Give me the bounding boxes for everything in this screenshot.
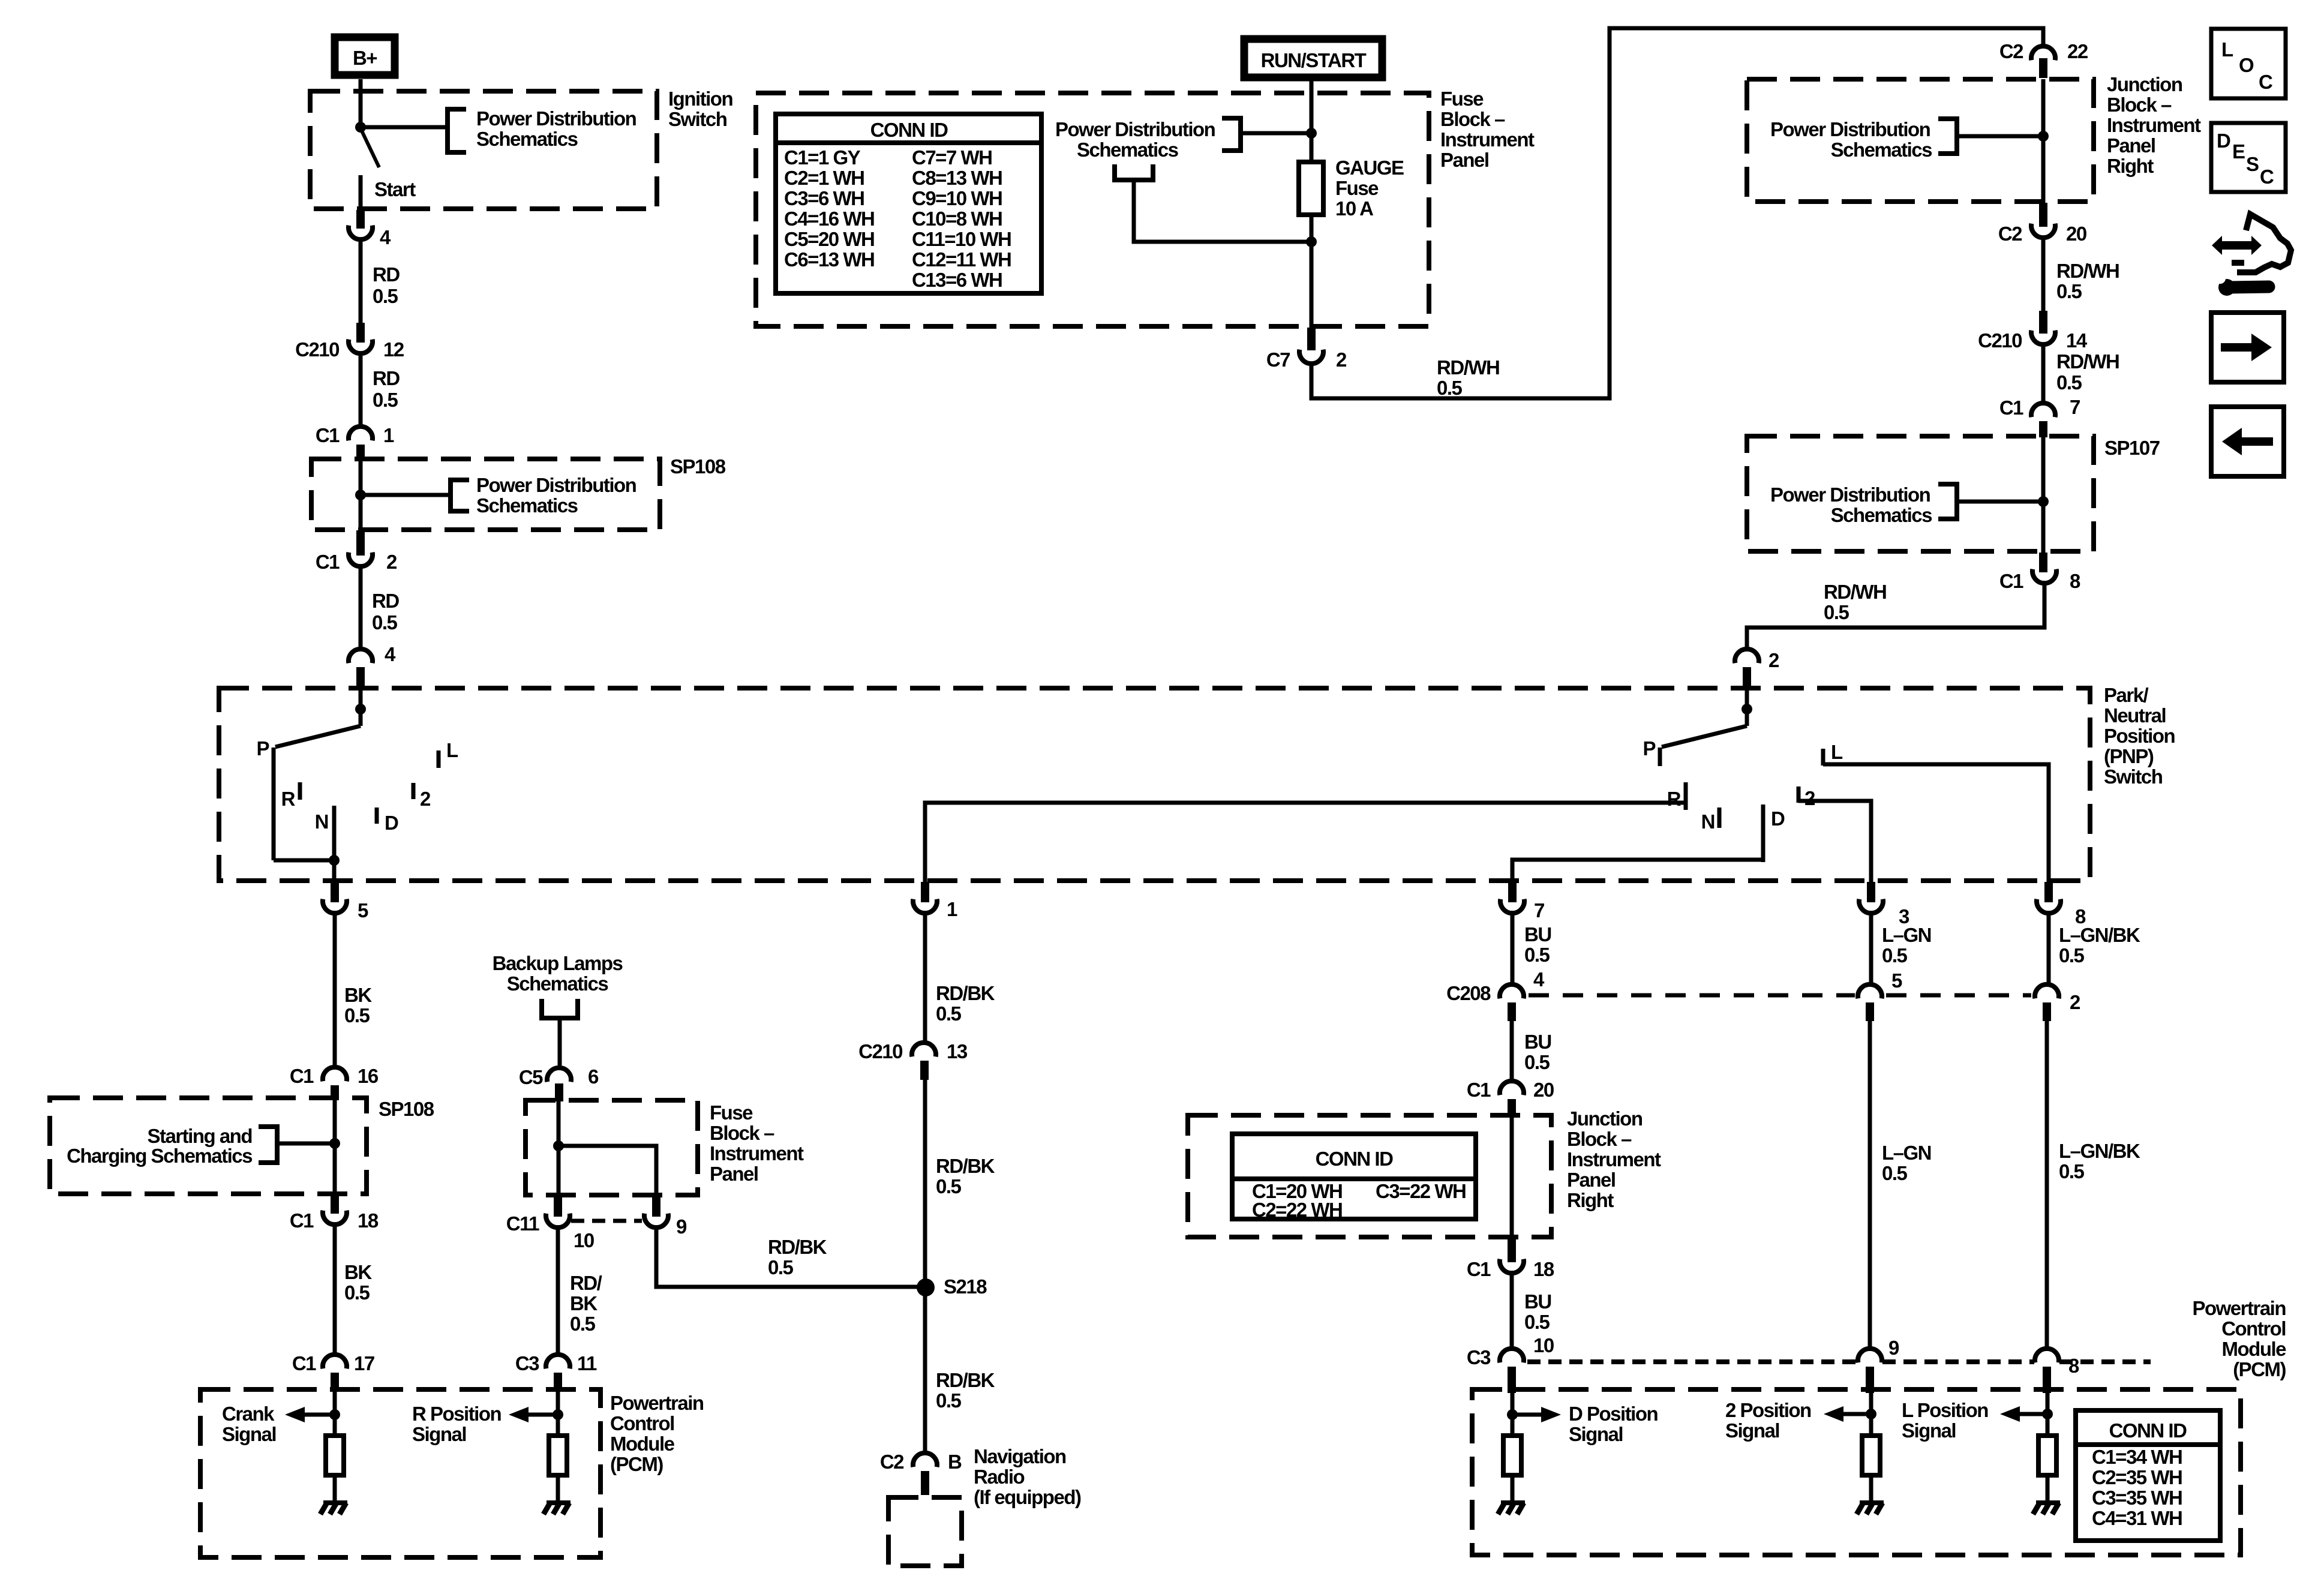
svg-text:Signal: Signal — [412, 1423, 466, 1445]
svg-text:L–GN: L–GN — [1882, 1142, 1931, 1164]
svg-text:BK: BK — [344, 984, 372, 1006]
svg-text:0.5: 0.5 — [936, 1389, 962, 1412]
svg-text:Signal: Signal — [1569, 1423, 1623, 1445]
wire SP108 lower to bracket — [277, 1142, 335, 1146]
svg-text:0.5: 0.5 — [2059, 1160, 2085, 1182]
connector C1 pin 16 stub — [331, 1085, 339, 1098]
node SP107 junction — [2038, 496, 2049, 507]
wire label BK 0.5 (a) — [344, 984, 372, 1026]
connector 2 PNP — [1735, 649, 1779, 671]
left contact P — [256, 737, 274, 860]
svg-text:2: 2 — [1768, 649, 1779, 671]
wire through junction block lower — [1510, 1116, 1514, 1241]
wire 8 to tie 2 — [2047, 914, 2051, 985]
ground crank — [320, 1500, 347, 1514]
svg-text:C1: C1 — [1467, 1258, 1491, 1280]
wire R resistor to ground — [556, 1475, 560, 1502]
connector C2 pin B stub — [921, 1471, 929, 1495]
power symbol B+ — [335, 37, 395, 75]
svg-text:C1=1 GY: C1=1 GY — [784, 146, 861, 169]
wire D resistor to ground — [1511, 1475, 1515, 1502]
label Ignition Switch — [668, 88, 732, 130]
svg-text:Block –: Block – — [2107, 94, 2172, 116]
label SP107 — [2104, 437, 2160, 459]
right contact 2 — [1798, 786, 1815, 809]
wire C3-10 into PCM — [1511, 1393, 1515, 1436]
svg-text:Power Distribution: Power Distribution — [476, 107, 636, 130]
wire lower bracket to fuse bottom — [1134, 180, 1309, 242]
wire 2 resistor to ground — [1869, 1475, 1873, 1502]
svg-text:BU: BU — [1524, 1290, 1551, 1313]
svg-text:2: 2 — [1804, 787, 1815, 809]
svg-text:C1: C1 — [316, 551, 340, 573]
connector C208 pin 4 — [1446, 982, 1524, 1004]
left contact L — [439, 739, 458, 768]
connector C1 pin 2 — [316, 551, 397, 573]
svg-text:0.5: 0.5 — [768, 1256, 794, 1278]
power symbol RUN/START — [1244, 39, 1382, 77]
resistor D position — [1503, 1436, 1521, 1475]
svg-text:C208: C208 — [1446, 982, 1491, 1004]
wire label RD/WH 0.5 (c) — [2056, 350, 2119, 394]
svg-text:L–GN/BK: L–GN/BK — [2059, 924, 2140, 946]
right contact P — [1643, 737, 1660, 766]
bracket power distribution (SP108) — [451, 480, 469, 511]
svg-text:8: 8 — [2068, 1355, 2079, 1377]
svg-text:0.5: 0.5 — [1524, 1311, 1550, 1333]
wire 9 into PCM — [1869, 1393, 1873, 1436]
svg-text:9: 9 — [676, 1215, 687, 1238]
svg-text:4: 4 — [1533, 968, 1545, 990]
label Crank Signal — [222, 1403, 276, 1445]
label L Position Signal — [1902, 1399, 1988, 1442]
svg-text:C3=22 WH: C3=22 WH — [1376, 1180, 1466, 1202]
connector 2 PNP stub — [1743, 667, 1751, 691]
svg-text:(PCM): (PCM) — [2233, 1358, 2286, 1380]
2 position arrow — [1824, 1406, 1871, 1422]
wire label BU 0.5 (b) — [1524, 1031, 1551, 1073]
svg-text:RD/WH: RD/WH — [2056, 260, 2119, 282]
svg-text:Panel: Panel — [2107, 134, 2155, 157]
resistor 2 position — [1862, 1436, 1880, 1475]
left contact 2 — [413, 783, 431, 810]
connector C7 pin 2 stub — [1307, 328, 1316, 350]
svg-text:C210: C210 — [1978, 329, 2022, 352]
svg-text:R: R — [1667, 788, 1682, 810]
svg-text:Charging Schematics: Charging Schematics — [67, 1145, 252, 1167]
svg-text:RD/WH: RD/WH — [1824, 581, 1886, 603]
wire label L-GN/BK 0.5 (b) — [2059, 1140, 2140, 1182]
connector 4 ignition stub — [356, 210, 365, 229]
fuse block box upper — [756, 93, 1429, 326]
R position arrow — [509, 1407, 558, 1422]
node junction block junction — [2038, 131, 2049, 142]
crank signal arrow — [285, 1407, 335, 1422]
fuse GAUGE 10A — [1299, 162, 1323, 215]
wire B+ down — [359, 79, 363, 129]
svg-text:CONN ID: CONN ID — [2109, 1419, 2187, 1442]
svg-text:RD/BK: RD/BK — [936, 1369, 995, 1391]
svg-text:Neutral: Neutral — [2104, 704, 2166, 727]
svg-text:E: E — [2232, 140, 2245, 163]
svg-text:Switch: Switch — [668, 108, 727, 130]
wire 9 to S218 — [656, 1229, 918, 1287]
wire label RD/BK 0.5 (horiz) — [768, 1236, 827, 1278]
label Park/Neutral Position (PNP) Switch — [2104, 684, 2175, 788]
label Fuse Block Instrument Panel upper — [1440, 88, 1535, 171]
svg-text:Module: Module — [2222, 1338, 2287, 1360]
node crank junction — [329, 1409, 340, 1420]
svg-text:Instrument: Instrument — [1567, 1148, 1661, 1170]
conn id table lower box — [1232, 1134, 1476, 1219]
connector C1 pin 20 stub — [1508, 1099, 1516, 1116]
svg-text:CONN ID: CONN ID — [870, 119, 948, 141]
wire L resistor to ground — [2046, 1475, 2050, 1502]
svg-text:R Position: R Position — [412, 1403, 502, 1425]
svg-text:Schematics: Schematics — [507, 972, 608, 995]
connector C2 pin 20 stub — [2039, 203, 2047, 227]
left switch arm — [275, 709, 361, 747]
connector C2 pin 20 — [1998, 223, 2086, 245]
label Powertrain Control Module (PCM) right — [2192, 1297, 2286, 1380]
label Backup Lamps Schematics — [493, 952, 623, 995]
label Powertrain Control Module (PCM) left — [610, 1392, 704, 1475]
wire label BU 0.5 (a) — [1524, 923, 1551, 966]
svg-text:C5: C5 — [519, 1066, 543, 1088]
node SP108 lower junction — [329, 1138, 340, 1149]
wire C5-6 through fuse block — [557, 1100, 561, 1196]
svg-text:Fuse: Fuse — [1335, 177, 1379, 199]
wire C210-14 to C1-7 — [2041, 346, 2046, 402]
label Junction Block Instrument Panel Right (top) — [2107, 73, 2201, 177]
svg-text:Block –: Block – — [1567, 1128, 1632, 1150]
svg-text:C11=10 WH: C11=10 WH — [912, 228, 1011, 250]
svg-text:SP108: SP108 — [379, 1098, 434, 1120]
svg-text:N: N — [1701, 810, 1715, 833]
svg-text:C210: C210 — [295, 338, 339, 361]
label Navigation Radio (If equipped) — [974, 1445, 1081, 1508]
svg-text:Powertrain: Powertrain — [610, 1392, 704, 1414]
svg-text:Schematics: Schematics — [1831, 139, 1932, 161]
wire label BK 0.5 (b) — [344, 1261, 372, 1304]
svg-text:16: 16 — [358, 1065, 379, 1087]
node SP108 junction — [355, 490, 366, 500]
connector C1 pin 2 stub — [356, 530, 365, 556]
wire SP107 to bracket — [1957, 500, 2043, 504]
svg-text:S218: S218 — [944, 1275, 987, 1298]
svg-text:Panel: Panel — [710, 1163, 758, 1185]
connector C3 pin 10 stub — [1508, 1367, 1516, 1393]
svg-text:10 A: 10 A — [1335, 197, 1373, 220]
svg-text:L: L — [446, 739, 458, 761]
right contact R — [1667, 782, 1686, 810]
wire through SP108 lower — [333, 1096, 337, 1197]
left contact N — [315, 806, 334, 860]
svg-text:C4=31 WH: C4=31 WH — [2092, 1507, 2182, 1529]
wire label RD/WH 0.5 (b) — [2056, 260, 2119, 302]
svg-text:22: 22 — [2067, 40, 2088, 62]
svg-text:Block –: Block – — [710, 1122, 774, 1144]
label pin 10 (C3) — [1533, 1334, 1554, 1356]
svg-text:C8=13 WH: C8=13 WH — [912, 167, 1002, 189]
label pin 4 (C208) — [1533, 968, 1545, 990]
svg-text:7: 7 — [2070, 396, 2080, 418]
connector 5 tie — [1858, 984, 1882, 998]
icon box DESC — [2211, 123, 2286, 192]
svg-text:SP107: SP107 — [2104, 437, 2160, 459]
label D Position Signal — [1569, 1403, 1658, 1445]
connector 8 PCM stub — [2043, 1367, 2051, 1393]
connector C5 pin 6 stub — [555, 1083, 563, 1101]
svg-text:Radio: Radio — [974, 1466, 1025, 1488]
node left switch pivot — [355, 704, 366, 715]
wire C3-11 into PCM — [556, 1391, 560, 1436]
svg-text:2: 2 — [1336, 349, 1347, 371]
wire C11-10 to C3-11 — [556, 1229, 560, 1355]
svg-text:P: P — [256, 737, 269, 760]
wire tie2 down to 8 — [2045, 1020, 2049, 1351]
svg-text:Block –: Block – — [1440, 108, 1505, 130]
svg-text:C3: C3 — [1467, 1346, 1491, 1368]
svg-text:C6=13 WH: C6=13 WH — [784, 248, 874, 271]
icon box arrow left — [2211, 407, 2284, 476]
svg-text:4: 4 — [380, 226, 391, 248]
label pin 5 (tie) — [1891, 969, 1902, 992]
wire S218 to C2-B — [923, 1293, 927, 1454]
label Junction Block Instrument Panel Right (bottom) — [1567, 1107, 1661, 1211]
splice box SP108 upper — [311, 459, 660, 530]
connector C5 pin 6 — [519, 1065, 599, 1088]
connector C1 pin 7 — [1999, 396, 2080, 419]
connector 2 tie — [2035, 984, 2080, 1013]
connector C1 pin 17 — [292, 1352, 374, 1374]
svg-text:C3=6 WH: C3=6 WH — [784, 187, 864, 209]
connector 8 PCM — [2035, 1349, 2079, 1377]
svg-text:Right: Right — [1567, 1189, 1614, 1211]
connector 1 stub — [921, 882, 929, 902]
wire C210-13 to S218 — [923, 1079, 927, 1284]
ground R position — [544, 1500, 571, 1514]
wire 2 contact to connector 3 — [1798, 801, 1871, 882]
svg-text:0.5: 0.5 — [1524, 944, 1550, 966]
wire D contact to connector 7 — [1512, 860, 1763, 882]
svg-text:Signal: Signal — [222, 1423, 276, 1445]
svg-text:Backup Lamps: Backup Lamps — [493, 952, 623, 974]
wire bracket to fuse wire — [1241, 131, 1311, 136]
svg-text:Control: Control — [610, 1412, 674, 1434]
node fuse block lower junction — [553, 1140, 564, 1151]
svg-text:C210: C210 — [858, 1040, 902, 1062]
dotted tie C3-9-8 — [1527, 1359, 2151, 1364]
svg-text:C1=34 WH: C1=34 WH — [2092, 1446, 2182, 1468]
svg-text:5: 5 — [358, 899, 368, 921]
svg-text:B: B — [948, 1451, 962, 1473]
PCM box right — [1472, 1389, 2241, 1555]
wire backup bracket down — [558, 1018, 562, 1065]
wire fuse bottom — [1310, 215, 1314, 244]
resistor L position — [2038, 1436, 2056, 1475]
svg-text:Signal: Signal — [1902, 1419, 1956, 1442]
junction block box lower — [1188, 1115, 1551, 1237]
svg-text:Signal: Signal — [1725, 1419, 1779, 1442]
svg-text:C2=1 WH: C2=1 WH — [784, 167, 864, 189]
connector C1 pin 18 right — [1467, 1258, 1554, 1280]
left contact R — [281, 782, 300, 810]
wire label RD 0.5 (b) — [373, 367, 400, 411]
svg-text:C2=22 WH: C2=22 WH — [1252, 1199, 1342, 1221]
svg-text:8: 8 — [2070, 570, 2080, 592]
svg-text:14: 14 — [2066, 329, 2088, 352]
svg-text:C4=16 WH: C4=16 WH — [784, 208, 874, 230]
node D position junction — [1507, 1409, 1518, 1420]
wire label RD/BK 0.5 (vert) — [570, 1272, 602, 1335]
conn id table upper column 1 — [784, 146, 874, 271]
fuse block box lower — [526, 1100, 698, 1195]
connector C1 pin 18 stub — [331, 1194, 339, 1214]
wire label RD/WH 0.5 (d) — [1824, 581, 1886, 623]
svg-text:C2: C2 — [1998, 223, 2022, 245]
connector 1 — [913, 898, 957, 920]
label SP108 lower — [379, 1098, 434, 1120]
connector C7 pin 2 — [1266, 349, 1347, 371]
svg-text:C12=11 WH: C12=11 WH — [912, 248, 1011, 271]
connector 3 — [1859, 899, 1909, 927]
connector C2 pin 22 — [1999, 40, 2088, 62]
right contact N — [1701, 807, 1719, 833]
svg-text:2: 2 — [2070, 991, 2080, 1013]
conn id table PCM box — [2076, 1410, 2220, 1541]
svg-text:Ignition: Ignition — [668, 88, 732, 110]
svg-text:C7=7 WH: C7=7 WH — [912, 146, 992, 169]
connector C1 pin 7 stub — [2039, 421, 2047, 437]
ignition switch arm — [361, 128, 379, 167]
svg-text:Position: Position — [2104, 725, 2175, 747]
svg-text:O: O — [2239, 54, 2254, 76]
svg-text:1: 1 — [383, 424, 394, 446]
right switch arm — [1662, 709, 1747, 747]
left contact D — [377, 807, 398, 834]
icon wrench with double arrow — [2212, 214, 2291, 296]
svg-text:0.5: 0.5 — [1824, 601, 1849, 623]
svg-text:Power Distribution: Power Distribution — [1770, 484, 1930, 506]
svg-text:Instrument: Instrument — [710, 1142, 804, 1164]
svg-text:Instrument: Instrument — [2107, 114, 2201, 136]
svg-text:SP108: SP108 — [670, 455, 726, 478]
svg-text:0.5: 0.5 — [1882, 944, 1908, 966]
svg-text:RD: RD — [373, 367, 400, 389]
svg-text:C1: C1 — [290, 1209, 314, 1232]
connector 9 stub — [652, 1195, 660, 1217]
connector 8 — [2037, 899, 2086, 927]
connector C11 pin 10 stub — [554, 1195, 562, 1217]
label Power Distribution Schematics (fuse block) — [1055, 118, 1215, 161]
svg-text:17: 17 — [354, 1352, 374, 1374]
PCM box left — [200, 1389, 600, 1557]
connector C1 pin 1 — [316, 424, 394, 446]
navigation radio box — [888, 1497, 962, 1566]
left switch wire in — [359, 688, 363, 710]
svg-text:C1: C1 — [290, 1065, 314, 1087]
node left N junction — [329, 855, 340, 866]
svg-text:13: 13 — [947, 1040, 968, 1062]
wire C2-22 through junction block — [2041, 79, 2046, 204]
svg-text:Right: Right — [2107, 155, 2154, 177]
node fuse bottom junction — [1306, 236, 1317, 247]
wire C1-17 into PCM — [333, 1391, 337, 1436]
ignition Start contact — [361, 175, 416, 209]
svg-text:C: C — [2260, 166, 2274, 188]
connector C1 pin 16 — [290, 1065, 379, 1087]
svg-text:BU: BU — [1524, 1031, 1551, 1053]
conn id table upper box — [776, 114, 1041, 293]
wire R contact to connector 1 — [925, 803, 1686, 882]
svg-text:N: N — [315, 810, 328, 833]
connector C1 pin 18 stub (right) — [1508, 1238, 1516, 1262]
wire bracket to junction — [1957, 134, 2043, 139]
wire label RD/BK 0.5 (1b) — [936, 1155, 995, 1197]
svg-text:Power Distribution: Power Distribution — [1055, 118, 1215, 140]
connector 7 stub — [1508, 882, 1517, 902]
label Power Distribution Schematics (SP107) — [1770, 484, 1932, 526]
label pin 9 (PCM) — [1888, 1337, 1899, 1359]
svg-text:2: 2 — [420, 788, 431, 810]
right contact L — [1823, 741, 1843, 766]
wire label RD/BK 0.5 (1a) — [936, 982, 995, 1025]
svg-text:C1: C1 — [1999, 397, 2023, 419]
connector 4 PNP — [349, 643, 396, 665]
wire label RD 0.5 (c) — [372, 590, 399, 634]
svg-text:0.5: 0.5 — [2056, 371, 2082, 394]
label Fuse Block Instrument Panel lower — [710, 1101, 804, 1185]
connector 2 tie stub — [2043, 1002, 2051, 1021]
wire C1-8 to connector 2 — [1747, 584, 2044, 647]
svg-text:S: S — [2246, 153, 2259, 175]
svg-text:C7: C7 — [1266, 349, 1290, 371]
svg-text:C5=20 WH: C5=20 WH — [784, 228, 874, 250]
wire RUN/START down — [1310, 77, 1314, 164]
svg-text:Module: Module — [610, 1433, 675, 1455]
label SP108 upper — [670, 455, 726, 478]
svg-text:P: P — [1643, 737, 1655, 760]
svg-text:0.5: 0.5 — [344, 1281, 370, 1304]
svg-text:L–GN/BK: L–GN/BK — [2059, 1140, 2140, 1162]
svg-text:0.5: 0.5 — [1882, 1162, 1908, 1184]
label Power Distribution Schematics (junction block) — [1770, 118, 1932, 161]
connector 7 — [1500, 899, 1544, 921]
wire C210-12 to C1-1 — [359, 355, 363, 427]
svg-text:Junction: Junction — [2107, 73, 2182, 95]
svg-text:Switch: Switch — [2104, 766, 2163, 788]
svg-text:Schematics: Schematics — [1831, 504, 1932, 526]
svg-text:R: R — [281, 788, 296, 810]
wire C7 to junction block — [1311, 28, 2043, 398]
svg-text:0.5: 0.5 — [2056, 280, 2082, 302]
svg-text:BK: BK — [344, 1261, 372, 1283]
node L position junction — [2042, 1409, 2053, 1419]
bracket lower (fuse block) — [1115, 164, 1153, 180]
svg-text:C11: C11 — [506, 1212, 539, 1235]
svg-text:0.5: 0.5 — [344, 1004, 370, 1026]
node fuse top junction — [1306, 128, 1317, 139]
svg-text:C10=8 WH: C10=8 WH — [912, 208, 1002, 230]
svg-text:C2=35 WH: C2=35 WH — [2092, 1466, 2182, 1488]
resistor crank — [326, 1436, 344, 1475]
svg-text:Instrument: Instrument — [1440, 128, 1535, 151]
svg-text:D: D — [1771, 807, 1785, 830]
svg-text:2: 2 — [386, 551, 397, 573]
wire to bracket (ignition) — [361, 125, 448, 130]
svg-text:C3=35 WH: C3=35 WH — [2092, 1487, 2182, 1509]
